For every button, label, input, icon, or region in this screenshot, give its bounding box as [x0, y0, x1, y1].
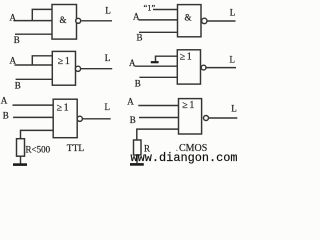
resistor R (R<500) gate5	[17, 139, 25, 157]
wire branch A to unused input gate3	[32, 56, 52, 65]
wire L gate2 output	[207, 20, 235, 22]
svg-text:B: B	[15, 80, 21, 90]
svg-text:≥1: ≥1	[182, 100, 196, 111]
svg-text:L: L	[105, 53, 111, 63]
svg-text:www.diangon.com: www.diangon.com	[131, 151, 238, 165]
ground bar gate4 tie	[151, 61, 159, 63]
gate U1 AND box	[52, 5, 77, 40]
wire B gate3	[16, 78, 53, 80]
wire L gate4 output	[206, 67, 236, 69]
wire A gate3	[15, 64, 53, 66]
bubble U4 output	[201, 65, 206, 70]
bubble U3 output	[75, 66, 80, 71]
wire A gate2	[139, 19, 178, 21]
wire B gate4	[139, 76, 177, 78]
wire resistor to ground gate5	[20, 157, 22, 164]
wire L gate3 output	[81, 68, 113, 70]
svg-text:B: B	[3, 111, 9, 121]
svg-text:L: L	[230, 7, 236, 17]
bubble U1 output	[76, 18, 81, 23]
svg-text:B: B	[130, 115, 136, 125]
wire B gate2	[139, 31, 178, 33]
svg-text:≥1: ≥1	[58, 56, 72, 67]
wire L gate5 output	[82, 118, 110, 120]
gate U2 AND box	[178, 5, 202, 37]
wire "1" gate2 input	[153, 9, 178, 11]
ground gate5	[13, 163, 27, 166]
svg-text:L: L	[105, 6, 111, 16]
svg-text:A: A	[127, 97, 134, 107]
label CMOS	[176, 150, 177, 151]
svg-text:B: B	[14, 35, 20, 45]
svg-text:A: A	[1, 95, 8, 105]
svg-text:A: A	[133, 11, 140, 21]
wire A gate5	[13, 104, 54, 106]
svg-text:L: L	[230, 54, 236, 64]
bubble U5 output	[77, 116, 82, 121]
bubble U2 output	[202, 18, 207, 23]
bubble U6 output	[204, 116, 209, 121]
svg-text:A: A	[10, 56, 17, 66]
wire resistor branch gate5	[21, 130, 54, 138]
svg-text:“1”: “1”	[144, 2, 156, 12]
wire L gate6 output	[209, 117, 238, 119]
svg-text:≥1: ≥1	[57, 102, 71, 113]
resistor R gate6	[134, 140, 142, 155]
gate U4 OR box	[177, 50, 200, 84]
gate U6 OR box	[179, 99, 202, 134]
wire resistor branch gate6	[137, 129, 179, 140]
svg-text:L: L	[231, 103, 237, 113]
gate U3 OR box	[52, 51, 75, 85]
gate U5 OR box	[53, 99, 77, 138]
svg-text:L: L	[105, 102, 111, 112]
wire A gate1	[14, 20, 53, 22]
svg-text:B: B	[135, 79, 141, 89]
ground gate6	[130, 163, 144, 166]
svg-text:A: A	[129, 58, 136, 68]
svg-text:TTL: TTL	[67, 144, 85, 154]
wire A gate6	[138, 105, 178, 107]
svg-text:B: B	[137, 33, 143, 43]
wire resistor to ground gate6	[136, 155, 138, 163]
svg-text:&: &	[185, 13, 192, 23]
wire branch A to unused input gate1	[32, 9, 52, 20]
wire B gate6	[139, 117, 179, 119]
wire ground tie gate4	[156, 56, 178, 61]
wire L gate1 output	[81, 20, 112, 22]
wire B gate5	[13, 116, 53, 118]
wire A gate4	[135, 65, 178, 67]
svg-text:R<500: R<500	[26, 145, 51, 155]
svg-text:≥1: ≥1	[180, 52, 194, 63]
wire B gate1	[15, 33, 52, 35]
svg-text:A: A	[10, 12, 17, 22]
svg-text:&: &	[60, 15, 67, 25]
